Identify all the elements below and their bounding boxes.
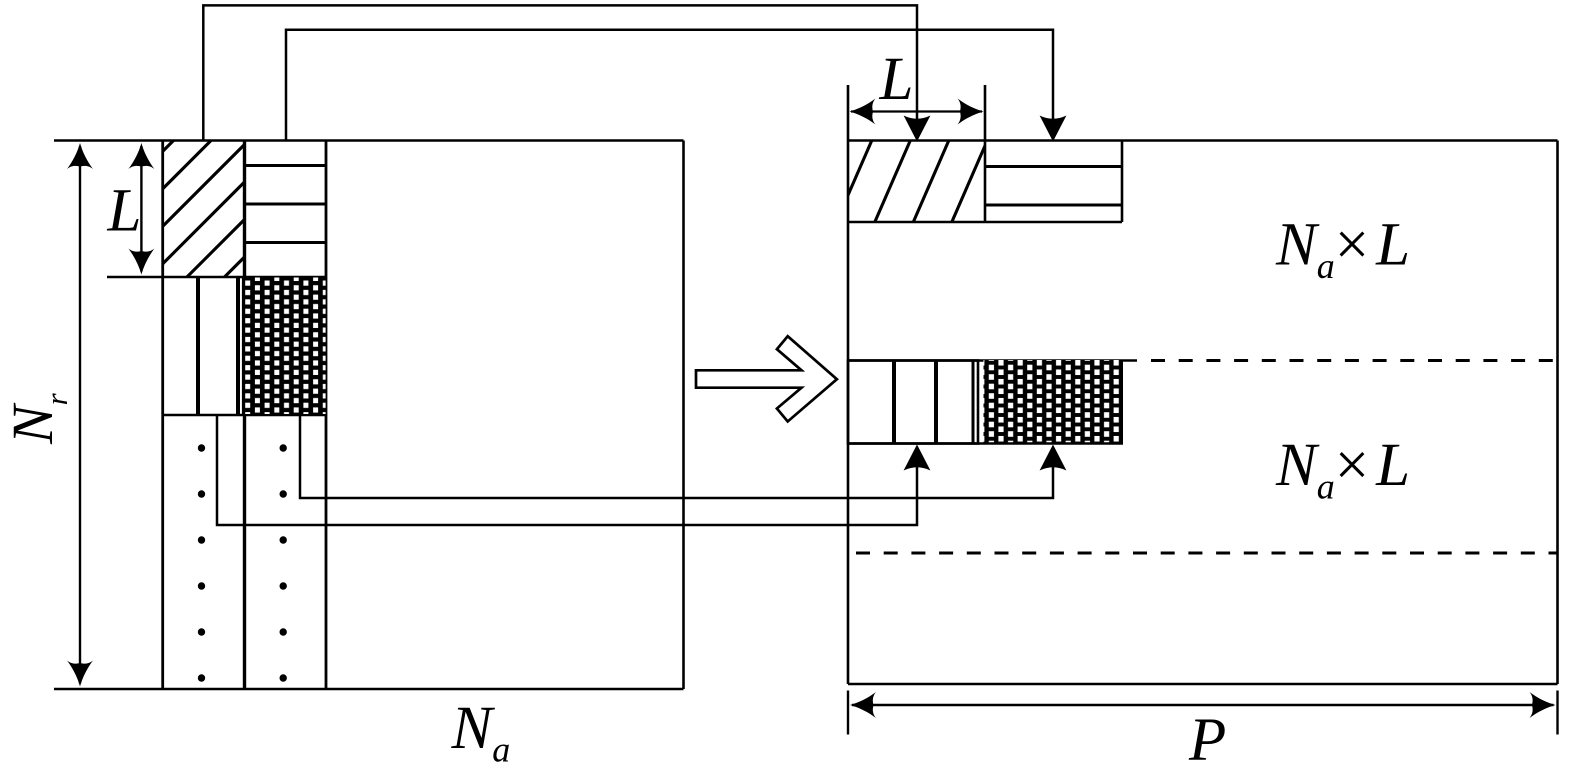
right hlines block right edge bbox=[1121, 141, 1124, 223]
checkered cell (row2 col2 of left matrix) bbox=[245, 278, 326, 415]
arrowhead up into right vlines block bbox=[904, 445, 931, 471]
dashed row divider 1 bbox=[1151, 359, 1557, 362]
svg-text:L: L bbox=[107, 178, 142, 245]
right matrix left edge with upper tick bbox=[847, 85, 850, 684]
svg-text:P: P bbox=[1188, 707, 1226, 774]
right dotted block bbox=[984, 360, 1124, 444]
big open arrow between matrices bbox=[696, 336, 837, 421]
L dimension arrowhead bottom (left) bbox=[128, 249, 154, 275]
N_r dimension arrowhead bottom bbox=[67, 661, 93, 687]
hatched cell (row1 col1 of left matrix) bbox=[37, 141, 361, 278]
left matrix bottom edge bbox=[54, 688, 684, 691]
ellipsis dots column 1 bbox=[198, 444, 205, 681]
left matrix column divider x=326 bbox=[325, 141, 328, 690]
wire from hatched cell top to right hatch block bbox=[203, 5, 917, 140]
right matrix top edge bbox=[848, 139, 1558, 142]
left matrix column divider x=244.5 bbox=[243, 141, 246, 690]
L dimension arrow shaft (left) bbox=[140, 146, 142, 272]
P dimension tick right bbox=[1556, 691, 1558, 735]
right hlines block pattern lines bbox=[985, 167, 1122, 206]
left matrix top edge bbox=[54, 139, 684, 142]
arrowhead down into right hatch block bbox=[904, 116, 931, 142]
left matrix row divider y=277 with L tick extension bbox=[107, 276, 326, 278]
L dimension arrowhead top (left) bbox=[128, 143, 154, 169]
L dimension arrowhead left bbox=[850, 99, 876, 125]
left matrix left edge bbox=[161, 141, 164, 690]
arrowhead down into right hlines block bbox=[1040, 116, 1067, 142]
dashed row divider 1 solid part over blocks bbox=[848, 359, 1137, 362]
right hatch block bbox=[836, 140, 987, 223]
L dimension arrowhead right bbox=[958, 99, 984, 125]
wire from horizontal-lines cell top to right hlines block bbox=[286, 30, 1053, 141]
vertical-lines cell (row2 col1 of left matrix) bbox=[198, 277, 243, 414]
bottom edge of right vlines+dotted blocks bbox=[848, 442, 1123, 444]
right vlines block pattern lines bbox=[894, 361, 973, 444]
svg-text:Na×L: Na×L bbox=[1275, 432, 1410, 507]
wire from vlines dots column to right vlines block bbox=[217, 415, 917, 525]
P dimension line bbox=[852, 704, 1554, 706]
left matrix right edge bbox=[682, 141, 685, 690]
N_r dimension arrow shaft bbox=[79, 146, 81, 684]
P dimension tick left bbox=[847, 691, 849, 735]
horizontal-lines cell (row1 col2 of left matrix) bbox=[245, 166, 327, 243]
arrowhead up into right dotted block bbox=[1040, 445, 1067, 471]
ellipsis dots column 2 bbox=[280, 444, 287, 681]
wire from checkered dots column to right dotted block bbox=[300, 415, 1053, 498]
bottom edge of right hatch+hlines blocks bbox=[848, 221, 1122, 223]
right vlines block border bbox=[848, 361, 978, 444]
N_r dimension arrowhead top bbox=[67, 143, 93, 169]
L dimension line (right) bbox=[851, 110, 982, 112]
svg-text:L: L bbox=[879, 46, 914, 113]
P dimension arrowhead right bbox=[1530, 692, 1556, 718]
P dimension arrowhead left bbox=[850, 692, 876, 718]
dashed row divider 2 bbox=[856, 552, 1557, 555]
left matrix row divider y=414 bbox=[163, 414, 326, 417]
right matrix right edge bbox=[1556, 141, 1559, 685]
svg-text:Na×L: Na×L bbox=[1275, 212, 1410, 287]
right matrix bottom edge bbox=[848, 683, 1558, 686]
L dimension tick x=985 bbox=[984, 85, 987, 222]
